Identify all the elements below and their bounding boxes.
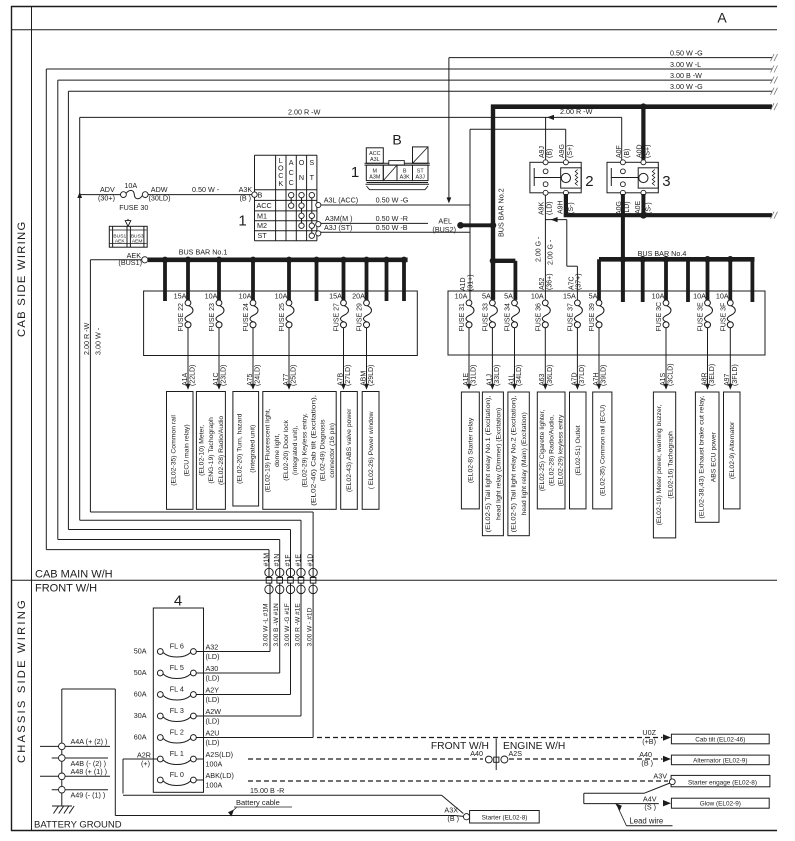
svg-text:2.00 G -: 2.00 G -: [547, 239, 554, 265]
connector A3X: [444, 805, 469, 823]
connector #1F cab/front: [284, 554, 295, 646]
svg-text:A63: A63: [539, 373, 546, 386]
wire 0.50 W-G (ACC feed): [447, 54, 778, 203]
battery terminal A4B: [52, 755, 108, 768]
svg-text:( EL02-26) Power window: ( EL02-26) Power window: [368, 411, 375, 489]
svg-text:A7C: A7C: [568, 276, 575, 290]
connector #1D cab/front: [306, 554, 317, 647]
svg-text:(LD): (LD): [206, 738, 220, 747]
load box (EL02-5) Tail light re: [482, 392, 503, 536]
svg-text:10A: 10A: [205, 291, 218, 300]
svg-text:FUSE 31: FUSE 31: [459, 303, 466, 332]
svg-text:BUS BAR No.2: BUS BAR No.2: [497, 188, 506, 237]
svg-text:(EL02-29) keyless entry: (EL02-29) keyless entry: [558, 414, 565, 486]
svg-text:(3ELD): (3ELD): [709, 364, 716, 386]
wire A3L (ACC) 0.50 W-G: [316, 196, 470, 208]
svg-text:K: K: [278, 179, 283, 188]
battery terminal A49: [52, 786, 108, 799]
svg-text:head light relay (Main) (Excit: head light relay (Main) (Excitation): [521, 412, 528, 515]
load box (EL02-43) ABS valve po: [341, 392, 358, 510]
svg-text:(B ): (B ): [240, 194, 252, 203]
svg-text:0.50 W -R: 0.50 W -R: [376, 214, 408, 223]
wire A9G feed: [470, 129, 566, 205]
front/engine w/h boundary: [431, 739, 566, 771]
svg-text:M2: M2: [257, 221, 267, 230]
load box (EL02-10) Meter,: [196, 392, 225, 510]
fuse FUSE 27 15A: [329, 291, 348, 331]
wire A0G thick: [621, 194, 625, 302]
label 2.00 R-W left: [288, 108, 321, 117]
connector #1N cab/front: [273, 554, 284, 647]
svg-text:3.00 W -G #1F: 3.00 W -G #1F: [284, 603, 291, 646]
wire 3.00 W-G (#1F): [68, 88, 777, 578]
fuse FUSE 23 10A: [205, 291, 224, 331]
svg-text:20A: 20A: [352, 291, 365, 300]
battery terminal A4A: [40, 737, 110, 750]
svg-text:A0E: A0E: [635, 200, 642, 214]
svg-text:3.00 W -L #1M: 3.00 W -L #1M: [262, 604, 269, 647]
svg-text:A3L: A3L: [370, 157, 380, 163]
battery cable 15.00 B-R: [115, 786, 463, 816]
svg-text:M: M: [373, 168, 378, 174]
svg-text:10A: 10A: [652, 291, 665, 300]
svg-text:B: B: [392, 132, 401, 148]
wire A1S (3CLD): [660, 328, 675, 390]
svg-text:FUSE 29: FUSE 29: [357, 303, 364, 332]
svg-text:A1A: A1A: [182, 372, 189, 386]
svg-text:15A: 15A: [329, 291, 342, 300]
svg-text:#1E: #1E: [295, 554, 302, 567]
svg-text:FUSE 24: FUSE 24: [243, 303, 250, 332]
svg-text:A75: A75: [247, 373, 254, 386]
wire 3.00 W- (#1D): [90, 260, 313, 578]
svg-text:BATTERY GROUND: BATTERY GROUND: [34, 820, 122, 831]
svg-text:(29LD): (29LD): [368, 365, 375, 386]
svg-text:head light relay (Dimmer) (Exc: head light relay (Dimmer) (Excitation): [495, 408, 502, 520]
svg-text:FUSE 33: FUSE 33: [482, 303, 489, 332]
svg-text:3.00 W -G: 3.00 W -G: [670, 82, 703, 91]
svg-text:10A: 10A: [693, 291, 706, 300]
wire label 3.00 W -L: [670, 60, 701, 69]
svg-text:(27LD): (27LD): [345, 365, 352, 386]
label 2.00 R-W right: [547, 107, 593, 120]
bus bar connector detail BUS1/AEM: [109, 219, 147, 247]
lead wire callout: [615, 803, 673, 826]
svg-text:(EL02-25) Cigarette lighter,: (EL02-25) Cigarette lighter,: [539, 410, 546, 492]
svg-text:(BUS2): (BUS2): [432, 225, 456, 234]
svg-text:A1D: A1D: [460, 277, 467, 291]
svg-text:Battery cable: Battery cable: [236, 798, 280, 807]
svg-text:A49 (- (1) ): A49 (- (1) ): [71, 791, 106, 800]
wire A63 (36LD): [539, 328, 554, 390]
svg-text:0.50 W -G: 0.50 W -G: [670, 48, 703, 57]
svg-text:3.00 R -W #1E: 3.00 R -W #1E: [294, 603, 301, 647]
load box (EL02-25) Cigarette li: [537, 392, 565, 509]
svg-text:A4A (+ (2) ): A4A (+ (2) ): [71, 737, 108, 746]
fuse FUSE 33 5A: [482, 291, 497, 331]
fusible link FL 3: [134, 706, 222, 726]
wire U0Z cab tilt (dashed): [317, 728, 671, 746]
svg-text:(EL02-35) Common rail: (EL02-35) Common rail: [170, 415, 177, 486]
svg-text:(EL02-5) Tail light relay No.1: (EL02-5) Tail light relay No.1 (Excitati…: [485, 395, 492, 532]
fusible link FL 1: [157, 749, 233, 769]
chassis side wiring label: [16, 598, 28, 763]
cab main w/h label: [35, 569, 113, 581]
svg-text:Starter (EL02-8): Starter (EL02-8): [482, 814, 528, 821]
label 3.00 W- vertical: [94, 327, 103, 355]
label B (connector detail): [392, 132, 401, 148]
svg-text:ST: ST: [258, 231, 268, 240]
svg-text:(EL02-19) Fluorescent light,: (EL02-19) Fluorescent light,: [265, 408, 272, 492]
svg-text:(B ): (B ): [447, 814, 459, 823]
svg-text:C: C: [289, 178, 294, 187]
svg-text:A48 (+ (1) ): A48 (+ (1) ): [71, 767, 108, 776]
fuse FUSE 25 10A: [275, 291, 294, 331]
svg-text:BUS BAR No.4: BUS BAR No.4: [638, 249, 687, 258]
bus bar No.2: [493, 105, 506, 300]
svg-text:(LD): (LD): [206, 695, 220, 704]
fuse FUSE 37 15A: [563, 291, 582, 331]
svg-text:FUSE 22: FUSE 22: [178, 303, 185, 332]
svg-text:2.00 R -W: 2.00 R -W: [288, 108, 321, 117]
svg-text:(+B): (+B): [642, 737, 656, 746]
wire 2.00 R-W (#1E): [80, 117, 622, 577]
label 2.00 R-W vertical: [82, 322, 91, 355]
wire A2U output: [196, 583, 313, 737]
svg-text:ST: ST: [417, 168, 425, 174]
svg-text:A3M: A3M: [369, 175, 381, 181]
fuse FUSE 34 5A: [504, 291, 519, 331]
load box ( EL02-26) Power windo: [362, 392, 379, 510]
svg-text:FL 3: FL 3: [170, 706, 184, 715]
fuse FUSE 3F 10A: [716, 291, 735, 331]
fuse FUSE 3E 10A: [693, 291, 712, 331]
svg-text:A2Y: A2Y: [206, 686, 220, 695]
svg-text:A3V: A3V: [653, 771, 667, 780]
svg-text:A32: A32: [206, 643, 219, 652]
svg-text:2.00 R -W: 2.00 R -W: [82, 322, 91, 355]
svg-text:10A: 10A: [275, 291, 288, 300]
svg-text:(LD): (LD): [206, 674, 220, 683]
svg-text:(LD): (LD): [547, 201, 554, 215]
svg-text:FUSE 39: FUSE 39: [589, 303, 596, 332]
wire A3J (ST) 0.50 W-B: [316, 223, 470, 236]
svg-text:(B): (B): [624, 149, 631, 158]
svg-text:3.00 W -: 3.00 W -: [94, 327, 103, 355]
svg-text:0.50 W -G: 0.50 W -G: [376, 196, 409, 205]
wire A0D thick feed: [641, 107, 645, 160]
fuse FUSE 24 10A: [239, 291, 258, 331]
svg-text:A3M(M ): A3M(M ): [325, 214, 353, 223]
svg-text:FUSE 23: FUSE 23: [209, 303, 216, 332]
svg-text:(EL02-38,43) Exhaust brake cut: (EL02-38,43) Exhaust brake cut relay,: [699, 396, 706, 519]
wire A97 (3FLD): [724, 328, 739, 390]
svg-text:AEM: AEM: [132, 239, 143, 245]
load box (EL02-20) Turn, hazard: [233, 392, 259, 507]
svg-text:FUSE 37: FUSE 37: [567, 303, 574, 332]
svg-text:(EL02-10) Meter power, warning: (EL02-10) Meter power, warning buzzer,: [656, 404, 663, 525]
fuse FUSE 36 10A: [531, 291, 550, 331]
load box (EL02-8) Starter relay: [461, 392, 479, 509]
svg-text:connector (16 pin): connector (16 pin): [329, 423, 336, 478]
svg-text:(+): (+): [141, 759, 150, 768]
svg-text:15A: 15A: [174, 291, 187, 300]
svg-text:#1F: #1F: [285, 554, 292, 566]
svg-text:3.00 B -W: 3.00 B -W: [670, 71, 702, 80]
svg-text:(EL02-8) Starter relay: (EL02-8) Starter relay: [468, 417, 475, 483]
label 1 (connector detail): [351, 164, 359, 181]
svg-text:A1J: A1J: [486, 374, 493, 386]
lead wire A4V: [584, 783, 671, 811]
svg-text:FUSE 27: FUSE 27: [334, 303, 341, 332]
label AEK (BUS1): [118, 251, 142, 267]
glow box: [671, 798, 769, 808]
svg-text:FL 4: FL 4: [170, 684, 184, 693]
svg-text:A: A: [289, 158, 294, 167]
fusible link FL 5: [134, 663, 220, 683]
svg-text:(EL02-43) ABS valve power: (EL02-43) ABS valve power: [346, 408, 353, 492]
svg-text:(3FLD): (3FLD): [732, 364, 739, 386]
fuse FUSE 31 10A: [455, 291, 474, 331]
svg-text:ABK(LD): ABK(LD): [206, 771, 234, 780]
svg-text:10A: 10A: [531, 291, 544, 300]
svg-text:FUSE 3C: FUSE 3C: [656, 302, 663, 332]
fuse box (engine): [448, 291, 765, 355]
bus bar No.2 elbow to fuse 34: [490, 258, 516, 300]
svg-text:(S+): (S+): [567, 145, 574, 158]
svg-text:A1C: A1C: [213, 372, 220, 386]
wire A77 (25LD): [283, 328, 298, 390]
svg-text:A0F: A0F: [616, 145, 623, 158]
svg-text:FL 0: FL 0: [170, 770, 184, 779]
load box (EL02-51) Outlet: [570, 392, 587, 509]
svg-text:FUSE 30: FUSE 30: [119, 203, 148, 212]
connector #1E cab/front: [294, 554, 305, 647]
svg-text:3.00 B -W #1N: 3.00 B -W #1N: [273, 603, 280, 646]
wire A7H (39LD): [593, 328, 608, 390]
svg-text:5A: 5A: [482, 291, 491, 300]
load box (EL02-10) Meter power,: [653, 392, 675, 538]
wire label 3.00 B -W: [670, 71, 702, 80]
svg-text:(EL02-49) Diagnosis: (EL02-49) Diagnosis: [320, 419, 327, 482]
key switch row labels: [257, 190, 272, 240]
bus bar No.4: [599, 249, 755, 263]
key switch connector detail B: [365, 147, 430, 190]
key switch column headers: [278, 156, 315, 188]
svg-text:(EL02-46) Cab tilt (Excitation: (EL02-46) Cab tilt (Excitation),: [310, 395, 317, 506]
svg-text:(25LD): (25LD): [291, 365, 298, 386]
cab/chassis divider: [11, 579, 777, 581]
svg-text:(EL02-29) Keyless entry,: (EL02-29) Keyless entry,: [301, 413, 308, 487]
svg-text:ACC: ACC: [369, 151, 380, 157]
bus bar No.4 stubs: [599, 259, 752, 302]
wire A3V starter engage (dashed): [248, 771, 668, 781]
svg-text:(23LD): (23LD): [221, 365, 228, 386]
svg-text:(ENG-19) Tachograph: (ENG-19) Tachograph: [208, 417, 215, 484]
wire 0.50 W- to key switch: [148, 185, 252, 194]
svg-text:Alternator (EL02-9): Alternator (EL02-9): [693, 757, 747, 764]
wire A1D to fuse 31: [460, 205, 475, 300]
wire ADV feed: [77, 192, 120, 198]
svg-text:10A: 10A: [716, 291, 729, 300]
svg-text:A9K: A9K: [539, 201, 546, 215]
svg-text:4: 4: [174, 593, 182, 610]
starter box: [470, 811, 540, 824]
svg-text:FL 5: FL 5: [170, 663, 184, 672]
svg-text:A2S(LD): A2S(LD): [206, 750, 234, 759]
svg-text:FUSE 34: FUSE 34: [505, 303, 512, 332]
fuse FUSE 3C 10A: [652, 291, 671, 331]
svg-text:T: T: [310, 173, 315, 182]
svg-text:(integrated unit),: (integrated unit),: [292, 426, 299, 476]
wire ABK stub: [196, 779, 203, 781]
svg-text:A9G: A9G: [559, 144, 566, 158]
load box (EL02-19) Fluorescent: [263, 392, 336, 510]
svg-text:100A: 100A: [206, 760, 223, 769]
label A3K (B): [239, 185, 253, 202]
wire A1A (22LD): [182, 328, 197, 390]
label ADW: [149, 185, 171, 202]
wire label 3.00 W -G: [670, 82, 703, 91]
svg-text:S: S: [309, 158, 314, 167]
connector #1M cab/front: [262, 553, 273, 647]
svg-text:A7H: A7H: [593, 372, 600, 386]
wire 3.00 B-W (#1N): [58, 77, 778, 578]
svg-text:5A: 5A: [589, 291, 598, 300]
svg-text:FRONT W/H: FRONT W/H: [35, 583, 97, 595]
svg-text:FL 1: FL 1: [170, 749, 184, 758]
svg-text:3.00 W -L: 3.00 W -L: [670, 60, 701, 69]
svg-text:A52: A52: [539, 277, 546, 290]
load box (EL02-35) Common rail: [167, 392, 194, 510]
svg-text:FUSE 3E: FUSE 3E: [698, 302, 705, 332]
svg-text:BUS BAR No.1: BUS BAR No.1: [179, 247, 228, 256]
wire A2Y output: [196, 583, 290, 694]
svg-text:Glow (EL02-9): Glow (EL02-9): [700, 801, 741, 808]
svg-text:M1: M1: [257, 211, 267, 220]
svg-text:A3L (ACC): A3L (ACC): [324, 196, 358, 205]
svg-text:A2W: A2W: [206, 707, 222, 716]
svg-text:(EL02-10) Meter,: (EL02-10) Meter,: [198, 425, 205, 476]
svg-text:(EL02-35) Common rail (ECU): (EL02-35) Common rail (ECU): [600, 405, 607, 496]
svg-text:A77: A77: [283, 373, 290, 386]
wire A2R (+) battery feed: [123, 751, 157, 794]
battery terminal A48: [40, 767, 110, 779]
svg-text:Starter engage (EL02-8): Starter engage (EL02-8): [688, 780, 757, 787]
svg-text:A1S: A1S: [660, 372, 667, 386]
wire A9J to 2.00R-W: [545, 117, 547, 159]
svg-text:1: 1: [351, 164, 359, 181]
svg-text:3: 3: [662, 173, 670, 190]
svg-text:CAB SIDE WIRING: CAB SIDE WIRING: [16, 221, 28, 337]
wire label 0.50 W -G: [670, 48, 703, 57]
svg-text:2: 2: [585, 173, 593, 190]
svg-text:A2S: A2S: [509, 749, 523, 758]
svg-text:(ECU main relay): (ECU main relay): [184, 424, 191, 476]
svg-text:50A: 50A: [134, 668, 147, 677]
svg-text:B: B: [258, 190, 263, 199]
svg-text:ABS ECU power: ABS ECU power: [710, 431, 717, 482]
wire A2S stub: [196, 758, 203, 760]
fusible link FL 4: [134, 684, 220, 704]
fusible link FL 0: [157, 770, 233, 790]
fuse box (cab): [144, 291, 418, 356]
battery cable callout: [228, 798, 292, 816]
svg-text:100A: 100A: [206, 781, 223, 790]
load box (EL02-38,43) Exhaust b: [695, 392, 719, 522]
wire A75 (24LD): [247, 328, 262, 390]
svg-text:A3X: A3X: [444, 805, 458, 814]
svg-text:(37+): (37+): [576, 273, 583, 290]
bus bar No.1 stubs: [162, 257, 407, 305]
wire A7B (27LD): [337, 328, 352, 390]
svg-text:A2U: A2U: [206, 729, 220, 738]
svg-text:10A: 10A: [124, 181, 137, 190]
svg-text:A40: A40: [470, 749, 483, 758]
svg-text:(Integrated unit): (Integrated unit): [249, 425, 256, 473]
svg-text:(30+): (30+): [98, 194, 115, 203]
fusible link FL 6: [134, 641, 220, 661]
svg-text:A9J: A9J: [539, 146, 546, 158]
svg-text:60A: 60A: [134, 690, 147, 699]
svg-text:O: O: [299, 158, 305, 167]
svg-text:(31+): (31+): [468, 274, 475, 291]
svg-text:30A: 30A: [134, 711, 147, 720]
svg-text:CAB MAIN W/H: CAB MAIN W/H: [35, 569, 113, 581]
load box (EL02-5) Tail light re: [508, 392, 529, 536]
relay 2: [530, 144, 594, 215]
wire A30 output: [196, 583, 279, 673]
svg-text:(LD): (LD): [206, 717, 220, 726]
svg-text:A7B: A7B: [337, 372, 344, 386]
wire A3M (M) 0.50 W-R: [316, 214, 428, 227]
svg-text:A7D: A7D: [571, 372, 578, 386]
svg-text:(EL02-5) Tail light relay No.2: (EL02-5) Tail light relay No.2 (Excitati…: [510, 395, 517, 532]
svg-text:(EL02-20) Turn, hazard: (EL02-20) Turn, hazard: [237, 413, 244, 483]
svg-text:60A: 60A: [134, 733, 147, 742]
label ADV: [98, 185, 115, 202]
front w/h label: [35, 583, 97, 595]
svg-text:A3K: A3K: [400, 175, 411, 181]
svg-text:BUS3: BUS3: [131, 234, 144, 240]
bus wire (thick top): [491, 103, 778, 110]
node AEL (BUS2): [432, 216, 496, 234]
svg-text:(39LD): (39LD): [601, 365, 608, 386]
wire A7D (37LD): [571, 328, 586, 390]
svg-text:A3J: A3J: [416, 175, 426, 181]
wire A9H thick (S-): [564, 194, 778, 219]
load box (EL02-9) Alternator: [724, 392, 741, 509]
wire A1J (33LD): [486, 328, 501, 390]
svg-text:10A: 10A: [455, 291, 468, 300]
svg-text:(S ): (S ): [644, 802, 656, 811]
svg-text:FUSE 25: FUSE 25: [279, 303, 286, 332]
svg-text:0.50 W -: 0.50 W -: [192, 185, 220, 194]
svg-text:A8R: A8R: [701, 372, 708, 386]
svg-text:N: N: [299, 173, 304, 182]
svg-text:2.00 G -: 2.00 G -: [536, 236, 543, 262]
svg-text:Lead wire: Lead wire: [629, 817, 663, 826]
wire A2S/A40 (dashed): [248, 749, 671, 767]
svg-text:5A: 5A: [504, 291, 513, 300]
svg-text:15A: 15A: [563, 291, 576, 300]
svg-text:10A: 10A: [239, 291, 252, 300]
wire ABM (29LD): [360, 328, 375, 390]
wire A8R (3ELD): [701, 328, 716, 390]
svg-text:3.00 W - #1D: 3.00 W - #1D: [306, 607, 313, 646]
svg-text:(EL02-28) Radio/Audio: (EL02-28) Radio/Audio: [218, 416, 225, 485]
ignition key switch 1 - table: [255, 155, 317, 241]
